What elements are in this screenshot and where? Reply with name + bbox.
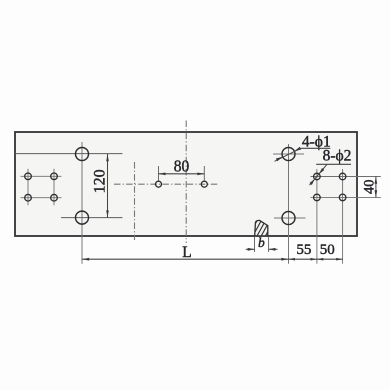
- 4-phi1 leader line: [275, 148, 301, 161]
- 120 dim arrows: [106, 154, 109, 161]
- bottom-left hole center line / 120 bottom extension: [61, 217, 123, 219]
- svg-text:b: b: [258, 235, 265, 250]
- left small-hole group center lines: [21, 169, 62, 206]
- horizontal center line through middle holes: [114, 183, 219, 185]
- svg-text:120: 120: [91, 169, 108, 193]
- vertical center line of plate (x=186): [185, 121, 187, 244]
- small hole C4: [339, 194, 346, 201]
- svg-text:80: 80: [174, 157, 190, 176]
- small hole C3: [314, 194, 321, 201]
- small hole A4: [51, 194, 58, 201]
- 8-phi2 leader arrows: [319, 168, 324, 174]
- 80 dim arrows: [159, 173, 166, 176]
- bottom-right large hole: [282, 212, 295, 225]
- top-left large hole: [76, 148, 89, 161]
- b dimension extension lines: [255, 237, 269, 253]
- chain dim arrows: [82, 258, 89, 261]
- b dim arrows: [248, 248, 255, 251]
- middle hole B1: [156, 181, 162, 187]
- plate outline: [15, 132, 357, 236]
- svg-text:8-ϕ2: 8-ϕ2: [323, 148, 352, 165]
- middle hole B2: [201, 181, 207, 187]
- bottom-right hole horizontal center line: [274, 217, 306, 219]
- right small-hole group center lines: [311, 169, 381, 264]
- 40 dimension line: [375, 177, 377, 198]
- small hole A2: [51, 173, 58, 180]
- 80 dimension line: [159, 173, 205, 175]
- vertical center line (x=134.5): [134, 162, 136, 240]
- b dimension arrow lines: [246, 248, 255, 250]
- svg-text:40: 40: [362, 180, 378, 195]
- center line through left large holes / L extension: [81, 142, 83, 264]
- small hole A3: [25, 194, 32, 201]
- 8-phi2 underline: [316, 163, 351, 165]
- small hole C1: [314, 173, 321, 180]
- wedge hatching: [248, 218, 284, 238]
- 120 dimension line: [107, 154, 109, 218]
- small hole C2: [339, 173, 346, 180]
- small hole A1: [25, 173, 32, 180]
- svg-text:L: L: [182, 244, 191, 261]
- center line through right large holes / extension: [288, 144, 290, 264]
- 4-phi1 leader arrows: [294, 147, 301, 152]
- bottom-left large hole: [76, 211, 89, 224]
- svg-text:50: 50: [320, 242, 335, 258]
- 40 dim arrows: [375, 177, 378, 184]
- svg-text:55: 55: [296, 242, 311, 258]
- 4-phi1 underline: [301, 147, 331, 149]
- top-right hole horizontal center line: [273, 153, 304, 155]
- top-right large hole: [282, 148, 295, 161]
- 8-phi2 leader line: [310, 164, 328, 185]
- bottom dimension line (L / 55 / 50): [82, 258, 343, 260]
- top-left hole center line / 120 top extension: [15, 153, 123, 155]
- 80 dimension extension lines: [159, 166, 205, 181]
